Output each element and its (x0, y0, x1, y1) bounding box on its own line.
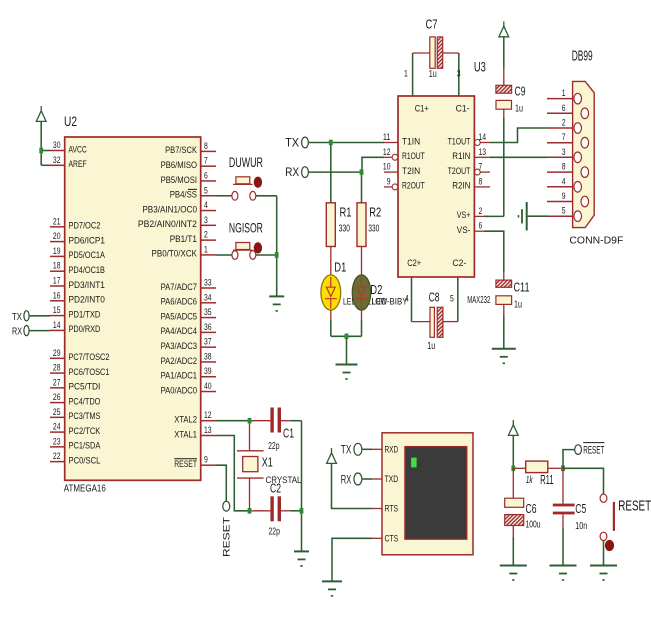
svg-text:2: 2 (204, 230, 208, 241)
svg-text:3: 3 (457, 69, 461, 80)
U2 right pin names (138, 145, 198, 469)
junction TX/R1 (329, 140, 333, 146)
wire RX to PD0 (29, 330, 50, 332)
terminal RX (to R1OUT net) (302, 167, 309, 178)
svg-text:C1-: C1- (456, 104, 470, 115)
wire DUWUR left contact (216, 195, 232, 197)
wire CTS to ground (332, 538, 372, 581)
power symbol VCC at U2 (36, 106, 46, 121)
svg-text:1u: 1u (514, 300, 522, 311)
U2 right pin stubs (201, 151, 216, 465)
svg-text:CTS: CTS (385, 534, 399, 545)
terminal RESET (net label) (575, 445, 582, 455)
IC U2 ATMEGA16 body (65, 137, 201, 480)
svg-text:PD2/INT0: PD2/INT0 (69, 295, 105, 305)
svg-text:C9: C9 (515, 84, 526, 99)
capacitor C5 10n (553, 468, 588, 532)
svg-text:RXD: RXD (385, 445, 399, 456)
U3 pin names inside (402, 104, 471, 269)
virtual terminal screen (405, 447, 467, 540)
wire LED ground rail (331, 335, 362, 337)
svg-text:PC2/TCK: PC2/TCK (69, 426, 102, 436)
svg-text:PD6/ICP1: PD6/ICP1 (69, 235, 105, 245)
svg-text:PC6/TOSC1: PC6/TOSC1 (69, 367, 110, 377)
svg-text:TX: TX (285, 136, 299, 150)
svg-text:U2: U2 (64, 113, 77, 129)
svg-text:PB5/MOSI: PB5/MOSI (161, 175, 197, 185)
svg-text:12: 12 (383, 147, 391, 158)
junction LED ground (345, 334, 349, 340)
svg-text:R2: R2 (369, 205, 381, 220)
LED D1 (321, 260, 346, 311)
capacitor C1 22p (250, 408, 295, 452)
wire button to ground (603, 541, 605, 566)
svg-text:13: 13 (479, 147, 487, 158)
wire T1OUT to DB9 pin2 (490, 128, 547, 143)
junction NGISOR (275, 252, 279, 258)
terminal TX (to RXD) (354, 443, 362, 455)
wire NGISOR left contact (216, 254, 232, 256)
svg-text:7: 7 (562, 132, 566, 143)
wire R1IN to DB9 pin3 (490, 156, 547, 158)
svg-text:25: 25 (53, 407, 61, 418)
wire C11 to ground (503, 304, 505, 315)
wire junction to R2 (361, 172, 363, 203)
svg-text:PA1/ADC1: PA1/ADC1 (161, 371, 197, 381)
junction C2/ground (300, 508, 304, 514)
junction R11/C5/RESET (561, 466, 565, 472)
svg-text:RESET: RESET (583, 444, 604, 456)
svg-text:1u: 1u (427, 341, 435, 352)
ground for C11 (492, 349, 516, 364)
svg-text:4: 4 (562, 176, 566, 187)
svg-text:PC0/SCL: PC0/SCL (69, 455, 101, 465)
svg-text:C6: C6 (526, 501, 537, 516)
junction XTAL1/C2/X1 (248, 508, 252, 514)
wire buttons to ground (276, 196, 278, 297)
svg-text:6: 6 (479, 221, 483, 232)
terminal RX (to TXD) (354, 473, 362, 485)
ground for C6 (500, 566, 527, 581)
svg-text:33: 33 (204, 278, 212, 289)
wire U2 RESET pin to terminal (216, 465, 226, 501)
svg-text:PC4/TDO: PC4/TDO (69, 396, 101, 406)
wire R1 to D1 (330, 247, 332, 276)
svg-text:21: 21 (53, 216, 61, 227)
svg-text:12: 12 (204, 410, 212, 421)
wire DUWUR right contact (256, 195, 277, 197)
svg-text:C1+: C1+ (415, 104, 429, 115)
junction AVCC (39, 148, 43, 154)
svg-text:4: 4 (204, 200, 208, 211)
svg-text:8: 8 (204, 141, 208, 152)
svg-text:C5: C5 (575, 501, 586, 516)
svg-text:23: 23 (53, 436, 61, 447)
svg-text:D1: D1 (334, 260, 346, 275)
svg-text:24: 24 (53, 422, 61, 433)
svg-text:10n: 10n (575, 521, 587, 532)
svg-text:37: 37 (204, 337, 212, 348)
svg-text:22: 22 (53, 451, 61, 462)
svg-text:11: 11 (383, 132, 391, 143)
svg-text:PD1/TXD: PD1/TXD (69, 309, 101, 319)
svg-text:330: 330 (368, 223, 379, 234)
wire RX to TXD (362, 478, 372, 480)
U2 left pin stubs (50, 151, 65, 462)
wire junction to R1 (330, 143, 332, 203)
svg-text:9: 9 (562, 191, 566, 202)
junction XTAL2/C1/X1 (248, 418, 252, 424)
svg-text:13: 13 (204, 425, 212, 436)
DB9 pin stubs (547, 99, 573, 217)
terminal RESET (U2) (223, 501, 230, 511)
ground for crystal caps (294, 551, 309, 566)
svg-text:3: 3 (204, 215, 208, 226)
svg-text:35: 35 (204, 307, 212, 318)
wire D2 to ground rail (361, 310, 363, 320)
svg-text:R1: R1 (340, 205, 352, 220)
capacitor C11 1u electrolytic (496, 280, 530, 311)
svg-text:1: 1 (204, 244, 208, 255)
wire C6 to ground (512, 537, 514, 566)
virtual terminal pin names (385, 445, 399, 545)
svg-text:R1OUT: R1OUT (402, 151, 425, 161)
wire R1OUT to RX net (362, 157, 384, 172)
svg-text:38: 38 (204, 351, 212, 362)
svg-text:17: 17 (53, 276, 61, 287)
svg-text:R2IN: R2IN (452, 181, 470, 191)
svg-text:PD0/RXD: PD0/RXD (69, 324, 101, 334)
svg-text:3: 3 (562, 147, 566, 158)
capacitor C2 22p (250, 481, 291, 538)
svg-text:C7: C7 (426, 16, 438, 31)
resistor R2 330 (357, 203, 381, 247)
wire XTAL2 (216, 420, 250, 422)
svg-text:26: 26 (53, 392, 61, 403)
wire VCC to RTS (332, 463, 373, 508)
svg-text:29: 29 (53, 348, 61, 359)
svg-text:PA5/ADC5: PA5/ADC5 (161, 311, 197, 321)
capacitor C8 1u (412, 290, 458, 352)
svg-text:RESET: RESET (618, 498, 651, 515)
svg-text:RESET: RESET (174, 459, 197, 469)
wire RX to junction (308, 171, 361, 173)
wire VCC to AVCC/AREF (40, 121, 42, 165)
svg-text:PB6/MISO: PB6/MISO (161, 160, 197, 170)
svg-text:PA7/ADC7: PA7/ADC7 (161, 282, 197, 292)
svg-text:330: 330 (339, 223, 350, 234)
svg-text:PB4/SS: PB4/SS (170, 190, 197, 200)
IC U3 MAX232 body (398, 96, 474, 277)
power symbol VCC at R11 (508, 420, 518, 435)
svg-text:PB7/SCK: PB7/SCK (165, 145, 198, 155)
U2 right pin numbers (204, 141, 212, 466)
svg-text:7: 7 (479, 162, 483, 173)
svg-text:C1: C1 (283, 426, 294, 441)
wire junction to push button (563, 468, 604, 494)
svg-text:1u: 1u (515, 104, 523, 115)
svg-text:NGISOR: NGISOR (229, 220, 263, 236)
svg-text:PC7/TOSC2: PC7/TOSC2 (69, 352, 110, 362)
svg-text:39: 39 (204, 366, 212, 377)
svg-text:T2IN: T2IN (402, 166, 420, 176)
svg-text:T1OUT: T1OUT (448, 136, 471, 146)
svg-text:18: 18 (53, 261, 61, 272)
wire C5 to ground (562, 528, 564, 566)
power symbol VCC at C9 (499, 21, 509, 36)
junction VCC/R11/C6 (511, 466, 515, 472)
capacitor C7 1u (413, 16, 459, 80)
crystal X1 (237, 421, 302, 511)
svg-text:LED-BIBY: LED-BIBY (372, 296, 409, 307)
capacitor C9 1u electrolytic (496, 84, 526, 115)
wire NGISOR right contact (256, 254, 277, 256)
wire TX to PD1 (29, 315, 50, 317)
svg-text:34: 34 (204, 292, 212, 303)
svg-text:RX: RX (12, 327, 22, 338)
wire C1/C2 right side to ground (291, 420, 302, 422)
svg-text:PC3/TMS: PC3/TMS (69, 411, 101, 421)
U3 top pin leads (C1+ pin1, C1- pin3) (412, 53, 414, 96)
svg-text:D2: D2 (370, 282, 382, 297)
svg-text:32: 32 (53, 155, 61, 166)
push button DUWUR (229, 154, 263, 200)
svg-text:16: 16 (53, 290, 61, 301)
svg-text:2: 2 (562, 118, 566, 129)
ground (sideways) at DB9 pin5 (519, 202, 527, 231)
svg-text:5: 5 (450, 294, 454, 305)
LED D2 (LED-BIBY) (352, 275, 382, 310)
svg-text:36: 36 (204, 322, 212, 333)
svg-text:C2+: C2+ (407, 258, 421, 269)
svg-text:14: 14 (479, 132, 487, 143)
ground for CTS (322, 581, 342, 596)
wire to RESET terminal (563, 450, 575, 469)
U2 left pin numbers (53, 140, 61, 462)
wire VCC to C9 (503, 37, 505, 68)
svg-text:28: 28 (53, 363, 61, 374)
svg-text:PA3/ADC3: PA3/ADC3 (161, 341, 197, 351)
ground for C5 (550, 566, 577, 581)
svg-text:PA0/ADC0: PA0/ADC0 (161, 385, 197, 395)
wire TX to T1IN (308, 142, 384, 144)
svg-text:PB0/T0/XCK: PB0/T0/XCK (152, 249, 198, 259)
ground for LEDs (336, 365, 358, 380)
svg-text:TX: TX (341, 443, 352, 457)
svg-text:C11: C11 (514, 280, 530, 295)
svg-text:14: 14 (53, 320, 61, 331)
svg-text:PA6/ADC6: PA6/ADC6 (161, 297, 197, 307)
svg-text:T1IN: T1IN (402, 136, 420, 146)
svg-text:RTS: RTS (385, 504, 399, 515)
wire TX to RXD (362, 448, 372, 450)
junction RX/R2 (360, 169, 364, 175)
svg-text:22p: 22p (269, 526, 281, 537)
push button NGISOR (229, 220, 263, 260)
wire D1 to ground rail (330, 310, 332, 320)
svg-text:TXD: TXD (385, 474, 399, 485)
svg-text:22p: 22p (268, 441, 280, 452)
virtual terminal cursor (411, 458, 417, 468)
U3 bottom pin leads (C2+ pin4, C2- pin5) (411, 277, 413, 322)
resistor R1 330 (326, 203, 351, 247)
ground for button (590, 566, 617, 581)
connector J1 DB99 body (573, 81, 595, 227)
svg-text:PB3/AIN1/OC0: PB3/AIN1/OC0 (142, 204, 197, 214)
svg-text:T2OUT: T2OUT (448, 166, 471, 176)
push button RESET (600, 494, 651, 551)
svg-text:9: 9 (387, 176, 391, 187)
virtual terminal body (382, 433, 473, 555)
svg-text:U3: U3 (474, 59, 486, 75)
capacitor C6 100u electrolytic (505, 468, 541, 537)
svg-text:X1: X1 (262, 455, 273, 470)
ground for buttons (276, 295, 278, 297)
svg-text:XTAL2: XTAL2 (174, 415, 197, 425)
svg-text:VS+: VS+ (457, 210, 471, 220)
svg-text:R11: R11 (540, 472, 554, 487)
svg-text:RX: RX (341, 472, 352, 486)
terminal RX (to PD0/RXD) (24, 326, 29, 336)
svg-text:XTAL1: XTAL1 (174, 429, 197, 439)
svg-text:8: 8 (479, 176, 483, 187)
U3 left pin stubs and numbers (383, 132, 398, 190)
svg-text:AVCC: AVCC (69, 144, 87, 154)
svg-text:CRYSTAL: CRYSTAL (266, 475, 302, 486)
svg-text:R2OUT: R2OUT (402, 181, 425, 191)
svg-text:5: 5 (204, 185, 208, 196)
svg-text:AREF: AREF (69, 159, 87, 169)
wire R2 to D2 (361, 247, 363, 276)
svg-text:5: 5 (562, 206, 566, 217)
svg-text:2: 2 (479, 206, 483, 217)
svg-text:PD4/OC1B: PD4/OC1B (69, 265, 105, 275)
svg-text:19: 19 (53, 246, 61, 257)
wire VCC to R11/C6 (512, 435, 514, 468)
svg-text:6: 6 (204, 170, 208, 181)
svg-text:100u: 100u (526, 519, 541, 530)
svg-text:MAX232: MAX232 (467, 295, 490, 306)
wire ground to DB9 pin5 (528, 215, 547, 217)
svg-text:15: 15 (53, 305, 61, 316)
svg-text:PD5/OC1A: PD5/OC1A (69, 250, 106, 260)
svg-text:9: 9 (204, 455, 208, 466)
svg-text:VS-: VS- (457, 225, 471, 235)
svg-text:C8: C8 (429, 290, 440, 305)
svg-text:TX: TX (12, 312, 22, 323)
svg-text:DUWUR: DUWUR (229, 154, 263, 170)
svg-text:30: 30 (53, 140, 61, 151)
svg-text:R1IN: R1IN (452, 151, 470, 161)
svg-text:27: 27 (53, 377, 61, 388)
svg-text:10: 10 (383, 162, 391, 173)
wire XTAL1 (216, 436, 250, 511)
svg-text:40: 40 (204, 381, 212, 392)
wire VS- to C11 (484, 231, 504, 272)
svg-text:RX: RX (285, 165, 299, 179)
svg-text:6: 6 (562, 103, 566, 114)
terminal TX (to PD1/TXD) (24, 311, 29, 321)
svg-text:1: 1 (404, 69, 408, 80)
DB9 pin numbers (562, 88, 566, 217)
U2 left pin names (69, 144, 110, 465)
svg-text:1: 1 (562, 88, 566, 99)
svg-text:1k: 1k (526, 475, 534, 486)
DB9 pin holes (574, 93, 589, 221)
virtual terminal pin stubs (372, 449, 382, 538)
svg-text:PB2/AIN0/INT2: PB2/AIN0/INT2 (138, 219, 197, 229)
resistor R11 1k (513, 461, 563, 487)
svg-text:PD7/OC2: PD7/OC2 (69, 221, 101, 231)
svg-text:7: 7 (204, 156, 208, 167)
svg-text:20: 20 (53, 231, 61, 242)
svg-text:CONN-D9F: CONN-D9F (569, 235, 623, 246)
svg-text:ATMEGA16: ATMEGA16 (64, 483, 106, 495)
svg-text:1u: 1u (429, 69, 437, 80)
terminal TX (to T1IN) (302, 137, 309, 148)
svg-text:PB1/T1: PB1/T1 (170, 234, 197, 244)
svg-text:RESET: RESET (222, 516, 232, 557)
svg-text:PA4/ADC4: PA4/ADC4 (161, 326, 197, 336)
svg-text:C2-: C2- (452, 258, 466, 269)
svg-text:PA2/ADC2: PA2/ADC2 (161, 356, 197, 366)
wire C9 to VS+ (503, 109, 505, 118)
svg-text:8: 8 (562, 162, 566, 173)
svg-text:PC5/TDI: PC5/TDI (69, 382, 101, 392)
svg-text:PD3/INT1: PD3/INT1 (69, 280, 105, 290)
svg-text:DB99: DB99 (572, 47, 593, 64)
U3 right pin stubs and numbers (474, 132, 490, 232)
svg-text:PC1/SDA: PC1/SDA (69, 441, 102, 451)
power symbol VCC at RTS (327, 448, 337, 463)
